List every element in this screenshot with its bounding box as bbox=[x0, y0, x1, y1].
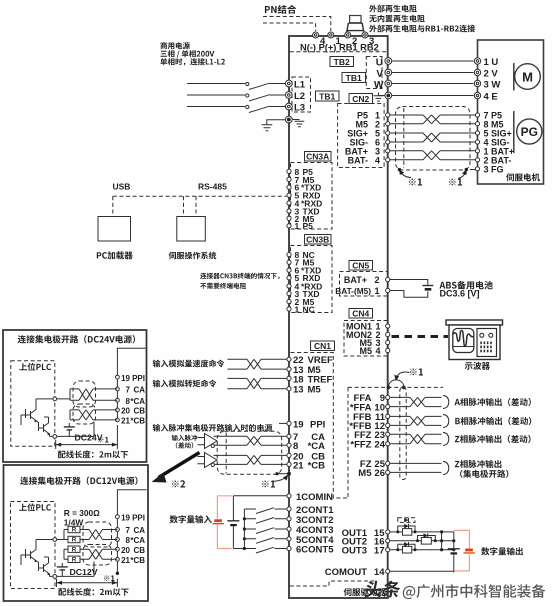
svg-text:20: 20 bbox=[121, 546, 130, 555]
resistor external regen (trapezoid) bbox=[350, 16, 361, 24]
terminal N(-) pin4 bbox=[313, 32, 319, 38]
svg-text:COMOUT: COMOUT bbox=[325, 567, 367, 578]
svg-text:L1: L1 bbox=[294, 80, 306, 91]
wire FFZ pair with twist and brace bbox=[390, 434, 442, 444]
svg-text:*CA: *CA bbox=[130, 397, 145, 406]
pin CN3A 8 P5 bbox=[287, 169, 291, 173]
pin CN2 SIG+ 5 bbox=[386, 131, 390, 135]
connector CN2 dashed group box bbox=[338, 104, 385, 168]
label 数字量输入 bbox=[170, 515, 212, 523]
svg-text:CN3B: CN3B bbox=[306, 234, 329, 244]
svg-text:CN2: CN2 bbox=[352, 94, 369, 104]
wire COMOUT rail bbox=[390, 571, 454, 572]
transistor Q1 DC24V bbox=[26, 404, 37, 421]
wire dashed PN to terminal 4 bbox=[263, 23, 316, 31]
node PLC output A bbox=[53, 397, 57, 401]
wire dashed RS-485 drop 1 bbox=[183, 196, 185, 215]
connector CN5 label box bbox=[349, 261, 373, 271]
label 上位PLC DC24V bbox=[19, 363, 51, 371]
shield dashed capsule FF outputs bbox=[400, 388, 406, 480]
wire DC24V bus with pins bbox=[117, 348, 145, 377]
label 三相/单相200V bbox=[161, 50, 215, 58]
battery DC12V bbox=[61, 563, 63, 576]
pin motor 8 M5 bbox=[475, 122, 479, 126]
shield dashed capsule DC12V CA bbox=[83, 522, 112, 547]
terminal PE ground bbox=[285, 116, 292, 123]
svg-text:R: R bbox=[72, 546, 77, 553]
pin CN3A 4 *RXD bbox=[287, 201, 291, 205]
terminal L1 bbox=[285, 80, 292, 87]
pin motor 4 SIG- bbox=[475, 140, 479, 144]
shield dashed capsule DC24V CB bbox=[73, 404, 96, 424]
svg-text:19: 19 bbox=[121, 374, 130, 383]
label （集电极开路） bbox=[460, 470, 508, 478]
diode D3 flyback bbox=[398, 544, 415, 549]
pin CN3B 8 NC bbox=[287, 253, 291, 257]
battery black output bbox=[448, 548, 460, 550]
label ※1 DC12V bbox=[104, 575, 115, 581]
pin CN3B 2 M5 bbox=[287, 299, 291, 303]
pin CN3B 5 RXD bbox=[287, 276, 291, 280]
svg-text:CN3A: CN3A bbox=[306, 151, 329, 161]
diode D2 flyback bbox=[418, 536, 436, 541]
svg-text:P5: P5 bbox=[303, 221, 314, 231]
pin CN1 M5 26 bbox=[386, 470, 390, 474]
battery DC24V bbox=[68, 423, 70, 436]
arrow to shield right with label ※1 bbox=[458, 172, 466, 179]
wire PPI stub bbox=[279, 422, 287, 424]
label ※1 DC24V bbox=[98, 437, 109, 443]
svg-text:M5: M5 bbox=[359, 346, 372, 356]
label 商用电源 bbox=[160, 42, 190, 49]
pin CN4 M5 3 bbox=[386, 340, 390, 344]
svg-text:7: 7 bbox=[126, 526, 131, 535]
wire red supply loop input bbox=[217, 496, 232, 549]
svg-text:24: 24 bbox=[374, 440, 385, 451]
svg-text:N(-) P(+) RB1 RB2: N(-) P(+) RB1 RB2 bbox=[300, 43, 379, 53]
pin CN3B 7 M5 bbox=[287, 260, 291, 264]
svg-text:M5: M5 bbox=[308, 385, 322, 396]
label 数字量输出 bbox=[481, 547, 523, 555]
terminal U bbox=[385, 58, 392, 65]
connector CN3B dashed group box bbox=[291, 246, 333, 313]
terminal motor 3W bbox=[474, 80, 480, 86]
arrow ※1 FF shield bbox=[397, 372, 410, 377]
svg-text:BAT+: BAT+ bbox=[344, 275, 367, 285]
wire U phase bbox=[392, 60, 474, 62]
wire arc over shield bbox=[388, 380, 403, 388]
pin CN1 4CONT3 bbox=[287, 527, 291, 531]
pin CN3B 4 *RXD bbox=[287, 284, 291, 288]
junction dot DC12V bus end bbox=[116, 572, 119, 575]
relay K2 OUT2 bbox=[390, 540, 422, 542]
label Z相脉冲输出（差动） bbox=[455, 435, 531, 443]
wire encoder P5 pair with twist bbox=[390, 115, 476, 124]
svg-text:CN1: CN1 bbox=[314, 341, 331, 351]
pin CN1 *FFA 10 bbox=[386, 405, 390, 409]
pin CN3A 5 RXD bbox=[287, 193, 291, 197]
wire encoder BAT pair with twist bbox=[390, 151, 476, 160]
svg-text:CN5: CN5 bbox=[352, 260, 369, 270]
pin CN2 SIG- 6 bbox=[386, 140, 390, 144]
box PC loader bbox=[98, 217, 131, 242]
shield inner dashed capsule pulse bbox=[225, 433, 227, 474]
pin CN1 FFB 11 bbox=[386, 414, 390, 418]
dimension arrow DC24V bbox=[56, 425, 118, 449]
transistor Q3 DC12V bbox=[26, 544, 37, 561]
connector CN5 dashed group box bbox=[340, 272, 388, 297]
wire input common rail bbox=[233, 509, 256, 549]
switch CONT1 bbox=[256, 508, 287, 514]
pin CN4 M5 4 bbox=[386, 348, 390, 352]
node PLC DC12V output A bbox=[53, 538, 57, 542]
wire dashed FF group left edge bbox=[347, 387, 349, 498]
ground symbol external mains bbox=[262, 120, 286, 131]
oscilloscope top bar bbox=[446, 320, 503, 325]
pin example 8 *CA bbox=[116, 398, 120, 402]
resistor R4 bbox=[68, 556, 80, 562]
wire mains L3 with switch bbox=[187, 106, 245, 108]
pin CN3B 1 NC bbox=[287, 307, 291, 311]
svg-text:L2: L2 bbox=[294, 91, 305, 102]
pin motor 1 BAT+ bbox=[475, 149, 479, 153]
wire mains L1 with switch bbox=[187, 83, 245, 85]
wire W phase bbox=[392, 83, 474, 85]
label PN结合 bbox=[265, 5, 296, 14]
svg-text:1COMIN: 1COMIN bbox=[296, 492, 333, 503]
battery red input bbox=[214, 519, 222, 522]
switch CONT5 bbox=[243, 547, 246, 550]
wire common emitter DC12V bbox=[57, 562, 94, 577]
pin CN3B 6 *TXD bbox=[287, 268, 291, 272]
label 配线长度 2m以下 DC12V bbox=[58, 588, 128, 596]
pin CN3A 2 M5 bbox=[287, 216, 291, 220]
label 上位PLC DC12V bbox=[19, 503, 51, 511]
svg-text:1: 1 bbox=[295, 304, 300, 314]
terminal L2 bbox=[285, 92, 292, 99]
pin CN1 OUT3 17 bbox=[386, 548, 390, 552]
pin CN1 1COMIN bbox=[287, 494, 291, 498]
pin CN3B 3 TXD bbox=[287, 291, 291, 295]
wire PLC DC12V collector B bbox=[50, 574, 53, 576]
wire DC12V bus with pins bbox=[117, 490, 146, 517]
svg-text:USB: USB bbox=[113, 182, 131, 192]
resistor R1 bbox=[68, 526, 80, 532]
connector CN4 dashed group box bbox=[344, 321, 388, 357]
wire shield to ground dot bbox=[277, 473, 289, 475]
shield dashed box encoder cable bbox=[396, 107, 471, 171]
pin CN1 5CONT4 bbox=[287, 537, 291, 541]
svg-text:PPI: PPI bbox=[132, 374, 145, 383]
switch CONT3 bbox=[243, 527, 246, 530]
wire dashed shield top FF bbox=[348, 386, 443, 388]
label B相脉冲输出（差动） bbox=[455, 417, 531, 425]
label 外部再生电阻 bbox=[369, 5, 417, 13]
wire BAT- to battery bbox=[390, 291, 428, 298]
pin CN1 13 M5 bbox=[287, 367, 291, 371]
servo motor block bbox=[478, 40, 544, 184]
svg-text:21: 21 bbox=[121, 556, 130, 565]
diode D1b dashed surge bbox=[398, 518, 415, 523]
pin CN1 21 *CB bbox=[287, 462, 291, 466]
svg-text:2: 2 bbox=[374, 275, 379, 285]
wire speed command pair with twist bbox=[227, 359, 286, 369]
pin example 19 PPI bbox=[116, 375, 120, 379]
pin motor 3 FG bbox=[475, 167, 479, 171]
buffer triangle CA bbox=[205, 434, 218, 449]
terminal L3 bbox=[285, 103, 292, 110]
svg-text:6CONT5: 6CONT5 bbox=[296, 545, 334, 556]
svg-text:*CB: *CB bbox=[130, 417, 145, 426]
pin CN1 OUT1 15 bbox=[386, 530, 390, 534]
svg-text:R: R bbox=[72, 557, 77, 564]
switch CONT2 bbox=[243, 517, 246, 520]
wire dashed comm line bbox=[113, 195, 287, 197]
wire thick dashed monitor to scope bbox=[392, 335, 449, 338]
wire output collector vertical bbox=[441, 532, 443, 550]
dashed box TB1 UVW group bbox=[366, 57, 382, 89]
relay K3 OUT3 bbox=[390, 549, 403, 551]
pin CN1 FZ 25 bbox=[386, 461, 390, 465]
label 伺服操作系统 bbox=[169, 252, 217, 260]
pin CN1 13 M5 second bbox=[287, 387, 291, 391]
box servo operator bbox=[177, 217, 206, 242]
svg-text:7: 7 bbox=[126, 386, 131, 395]
svg-text:19: 19 bbox=[293, 419, 304, 430]
svg-text:R = 300Ω: R = 300Ω bbox=[64, 508, 100, 518]
pin example DC12V 20 CB bbox=[116, 547, 120, 551]
pin CN1 FFZ 23 bbox=[386, 432, 390, 436]
svg-text:R: R bbox=[72, 527, 77, 534]
wire torque command pair with twist bbox=[227, 378, 286, 388]
svg-text:4: 4 bbox=[375, 156, 380, 166]
svg-text:4 E: 4 E bbox=[484, 91, 498, 102]
battery red output bbox=[465, 549, 473, 552]
pin CN4 MON2 2 bbox=[386, 332, 390, 336]
pin CN1 OUT2 16 bbox=[386, 539, 390, 543]
arrow big ※2 bbox=[159, 453, 200, 478]
svg-text:BAT-: BAT- bbox=[348, 156, 368, 166]
terminal RB1 pin2 bbox=[345, 32, 351, 38]
servo drive block outline bbox=[289, 36, 388, 598]
pin CN1 7 CA bbox=[287, 434, 291, 438]
label 伺服驱动器 bbox=[344, 588, 386, 596]
pin CN1 18 TREF bbox=[287, 376, 291, 380]
node shield arc junction right bbox=[402, 386, 406, 390]
svg-text:13: 13 bbox=[293, 385, 304, 396]
svg-text:TB2: TB2 bbox=[334, 57, 350, 67]
svg-text:CN4: CN4 bbox=[352, 308, 369, 318]
wire dashed TB2 separator bbox=[290, 51, 387, 53]
wire encoder SIG pair with twist bbox=[390, 133, 476, 142]
pin CN4 MON1 1 bbox=[386, 324, 390, 328]
wire dashed PN to terminal 1 bbox=[263, 17, 331, 32]
note 不需要终端电阻 line2 bbox=[200, 283, 246, 289]
pin motor 7 P5 bbox=[475, 113, 479, 117]
connector CN3A label box bbox=[305, 152, 332, 162]
shield dashed capsule DC24V CA bbox=[73, 381, 96, 407]
node shield arc junction left bbox=[387, 386, 391, 390]
wire FFB pair with twist and brace bbox=[390, 416, 442, 425]
diode D1 flyback bbox=[398, 526, 415, 532]
svg-text:OUT3: OUT3 bbox=[342, 546, 367, 557]
battery ABS backup bbox=[422, 285, 433, 287]
wire PLC DC12V collector A bbox=[21, 540, 53, 566]
pin example 7 CA bbox=[116, 387, 120, 391]
wire FZ open collector pair with brace bbox=[390, 463, 442, 472]
svg-text:TB1: TB1 bbox=[346, 73, 362, 83]
label TB1 box upper bbox=[342, 73, 366, 83]
label 无内置再生电阻 bbox=[369, 15, 425, 23]
label 连接集电极开路（DC12V电源） bbox=[20, 477, 137, 485]
wire CB pair DC12V with twist bbox=[64, 549, 117, 559]
junction dot shield right bbox=[465, 168, 468, 171]
svg-text:17: 17 bbox=[374, 546, 385, 557]
label 配线长度 2m以下 DC24V bbox=[58, 450, 128, 458]
box example DC24V outer bbox=[3, 330, 147, 462]
wire dashed RS-485 drop 2 bbox=[195, 196, 197, 215]
connector CN3B label box bbox=[305, 235, 332, 245]
connector CN1 label box bbox=[311, 341, 335, 351]
watermark 头条 logo bbox=[364, 581, 401, 598]
svg-text:PG: PG bbox=[521, 125, 538, 139]
pin CN1 2CONT1 bbox=[287, 507, 291, 511]
svg-text:R: R bbox=[72, 537, 77, 544]
buffer triangle CB bbox=[205, 453, 218, 468]
pin CN5 BAT+ 2 bbox=[386, 277, 390, 281]
connector CN3A dashed group box bbox=[291, 163, 333, 230]
svg-text:CA: CA bbox=[133, 386, 145, 395]
pin CN2 P5 1 bbox=[386, 113, 390, 117]
wire PLC collector B bbox=[50, 434, 53, 436]
pin example DC12V 8 *CA bbox=[116, 538, 120, 542]
shield inner dashed capsule bbox=[403, 108, 405, 168]
label TB1 box left bbox=[316, 91, 340, 101]
label Z相脉冲输出 bbox=[455, 460, 502, 468]
pin CN1 19 PPI bbox=[287, 421, 291, 425]
pin example DC12V 7 CA bbox=[116, 528, 120, 532]
terminal motor 4E bbox=[474, 92, 480, 98]
svg-text:3 FG: 3 FG bbox=[484, 165, 504, 175]
pin CN1 20 CB bbox=[287, 453, 291, 457]
shield dashed box pulse input bbox=[217, 431, 282, 474]
shield dashed capsule DC12V CB bbox=[83, 545, 112, 566]
svg-text:*FFZ: *FFZ bbox=[350, 440, 371, 451]
label ABS备用电池 bbox=[440, 281, 493, 290]
watermark @广州市中科智能装备 bbox=[403, 584, 546, 599]
ground symbol at E bbox=[374, 93, 385, 102]
node PLC DC12V output B bbox=[53, 575, 57, 579]
label 示波器 bbox=[465, 362, 490, 370]
pin example 20 CB bbox=[116, 408, 120, 412]
pin CN1 *FFB 12 bbox=[386, 423, 390, 427]
ground symbol internal at PE bbox=[293, 120, 305, 127]
wire CA pair DC24V with twist bbox=[57, 389, 118, 400]
wire CB pair DC24V with twist bbox=[70, 410, 117, 420]
svg-text:20: 20 bbox=[121, 407, 130, 416]
pin CN3A 6 *TXD bbox=[287, 185, 291, 189]
svg-text:RS-485: RS-485 bbox=[198, 182, 227, 192]
svg-text:W: W bbox=[374, 80, 384, 91]
pin CN2 BAT+ 3 bbox=[386, 149, 390, 153]
svg-text:DC12V: DC12V bbox=[70, 567, 98, 577]
wire dashed USB drop bbox=[112, 196, 114, 215]
pin CN3A 3 TXD bbox=[287, 209, 291, 213]
junction dot shield left bbox=[398, 168, 401, 171]
svg-text:19: 19 bbox=[121, 513, 130, 522]
svg-text:TB1: TB1 bbox=[319, 91, 335, 101]
wire V phase bbox=[392, 72, 474, 74]
svg-text:NC: NC bbox=[303, 304, 315, 314]
pin CN1 *FFZ 24 bbox=[386, 442, 390, 446]
box example DC12V outer bbox=[4, 465, 149, 601]
label 伺服电机 bbox=[506, 173, 540, 181]
transistor Q4 DC12V bbox=[37, 561, 50, 574]
wire E ground bbox=[392, 95, 474, 97]
junction dot shield pulse bbox=[287, 472, 291, 476]
svg-text:*CA: *CA bbox=[130, 536, 145, 545]
label 输入脉冲集电极开路输入时的电源 bbox=[153, 424, 273, 432]
wire PLC collector A bbox=[21, 399, 53, 425]
pin CN5 BAT-(M5) 1 bbox=[386, 288, 390, 292]
wire CA pair with twist bbox=[214, 436, 287, 445]
svg-text:21: 21 bbox=[121, 417, 130, 426]
svg-text:BAT-(M5): BAT-(M5) bbox=[335, 286, 371, 296]
pin CN1 3CONT2 bbox=[287, 517, 291, 521]
terminal P(+) pin1 bbox=[328, 32, 334, 38]
relay K1 OUT1 bbox=[390, 531, 403, 533]
oscilloscope screen with waveform bbox=[453, 329, 474, 353]
terminal RB2 pin3 bbox=[362, 32, 368, 38]
terminal W bbox=[385, 80, 392, 87]
wire CB pair with twist bbox=[214, 455, 287, 464]
node PLC output B bbox=[53, 435, 57, 439]
pin CN1 6CONT5 bbox=[287, 546, 291, 550]
wire CA pair DC12V with twist bbox=[57, 530, 118, 540]
connector CN1 dashed group box edges bbox=[291, 353, 349, 499]
svg-text:26: 26 bbox=[374, 468, 385, 479]
label CN2 box bbox=[349, 94, 373, 104]
motor M symbol bbox=[513, 63, 515, 91]
transistor Q2 DC24V bbox=[37, 421, 50, 434]
dashed box TB1 L group bbox=[292, 77, 311, 112]
svg-text:PPI: PPI bbox=[310, 419, 325, 430]
svg-text:DC3.6 [V]: DC3.6 [V] bbox=[440, 289, 480, 299]
svg-text:CB: CB bbox=[133, 546, 145, 555]
oscilloscope body bbox=[449, 325, 500, 360]
pin CN1 FFA 9 bbox=[386, 395, 390, 399]
box PLC dashed DC24V bbox=[11, 361, 55, 447]
svg-text:CB: CB bbox=[133, 407, 145, 416]
wire BAT+ to battery bbox=[390, 280, 428, 285]
pin example 21 *CB bbox=[116, 418, 120, 422]
pin CN1 COMOUT 14 bbox=[386, 569, 390, 573]
connector CN4 label box bbox=[349, 309, 373, 319]
label 输入模拟转矩命令 bbox=[153, 380, 217, 388]
pin CN3A 7 M5 bbox=[287, 177, 291, 181]
svg-text:1: 1 bbox=[374, 286, 379, 296]
label A相脉冲输出（差动） bbox=[455, 398, 531, 406]
label 输入脉冲 差动 bbox=[172, 435, 197, 441]
battery black input bbox=[232, 496, 234, 549]
box PLC dashed DC12V bbox=[11, 502, 56, 589]
wire FG from shield bbox=[470, 169, 475, 171]
svg-text:M: M bbox=[522, 70, 533, 85]
label PC加载器 bbox=[97, 251, 133, 259]
arrow to shield left with label ※1 bbox=[401, 172, 412, 178]
pin CN2 BAT- 4 bbox=[386, 158, 390, 162]
svg-text:2 V: 2 V bbox=[484, 68, 499, 79]
